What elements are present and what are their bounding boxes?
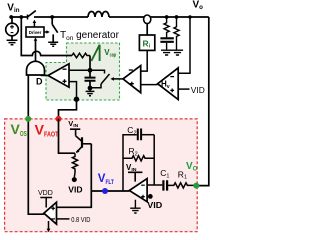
load resistor branch [175,15,179,19]
node Vcap [88,68,93,73]
and gate U1 [35,40,37,62]
wire Vin to Ton resistor (with hop) [21,17,72,56]
resistor R1 [167,183,196,188]
fault/filter block box (red dashed) [5,119,198,232]
output cap branch (R + C to ground) [165,15,169,19]
resistor Ron [72,53,90,58]
voltage source V1 [11,17,13,40]
driver U7 [26,27,44,37]
svg-text:VDD: VDD [38,190,53,197]
node switch junction [50,15,54,19]
svg-text:0.8 VID: 0.8 VID [71,215,91,224]
capacitor Con [89,70,91,77]
switch S1 high-side [27,15,29,20]
comparator U3 (Ton comparator) [141,50,148,71]
wire VFLT (base to filter) [57,144,92,208]
ground (under V1) [7,40,18,45]
wire feedback right [153,135,155,185]
comparator U5 (fault) [44,202,57,224]
wire top rail right [109,16,209,18]
Ton generator block box (green dashed, L-shaped) [46,43,120,100]
node VID (U6 +) [148,194,153,199]
current sense probe [144,15,151,24]
resistor Re (emitter) [72,153,77,177]
wire VFAOT to emitter [59,119,76,153]
wire Vo feedback right side [196,17,209,186]
amplifier U4 (Hv) [178,17,190,73]
svg-text:VID: VID [147,201,162,210]
svg-text:Driver: Driver [29,30,42,36]
wire top rail mid [34,16,88,18]
capacitor C2 [138,129,141,141]
ground (load branch) [172,50,183,55]
switch Sr (cap reset) [90,70,105,73]
node Vo [193,183,199,189]
node VID terminal [72,177,77,182]
node junction x21 [19,15,23,19]
resistor R2 [123,156,154,161]
svg-text:D: D [36,76,43,86]
svg-text:VID: VID [191,86,205,95]
ground (Ton gen) [86,88,95,96]
ground (cap branch) [161,50,172,55]
comparator U2 (D comparator) [69,69,90,71]
node VFLT [102,188,108,194]
svg-text:VID: VID [68,185,82,194]
op-amp U6 (filter) [147,184,162,186]
wire driver gate-drive right arrow [44,31,48,33]
inductor L1 [88,12,109,17]
node VOS [28,75,44,214]
node green box exit [74,97,79,102]
feedback network [123,135,137,191]
negative supply arrow [48,221,50,230]
wire top rail left [10,16,28,18]
node VFAOT [56,116,62,122]
ground (under S2) [48,42,58,46]
ground (U6) [130,200,140,213]
wire driver gate-drive up arrow [33,22,35,27]
transistor Q1 [76,136,82,141]
node Vin junction [9,15,13,19]
label 0.8 VID [57,218,70,220]
wire Ron to Vcap node [89,56,91,71]
wire to VFAOT [59,99,77,119]
Vcap sawtooth icon [91,45,99,61]
node cap bottom [88,86,93,91]
resistor Ri box [146,24,148,35]
capacitor C1 [163,180,167,190]
switch S2 low-side [51,17,53,24]
